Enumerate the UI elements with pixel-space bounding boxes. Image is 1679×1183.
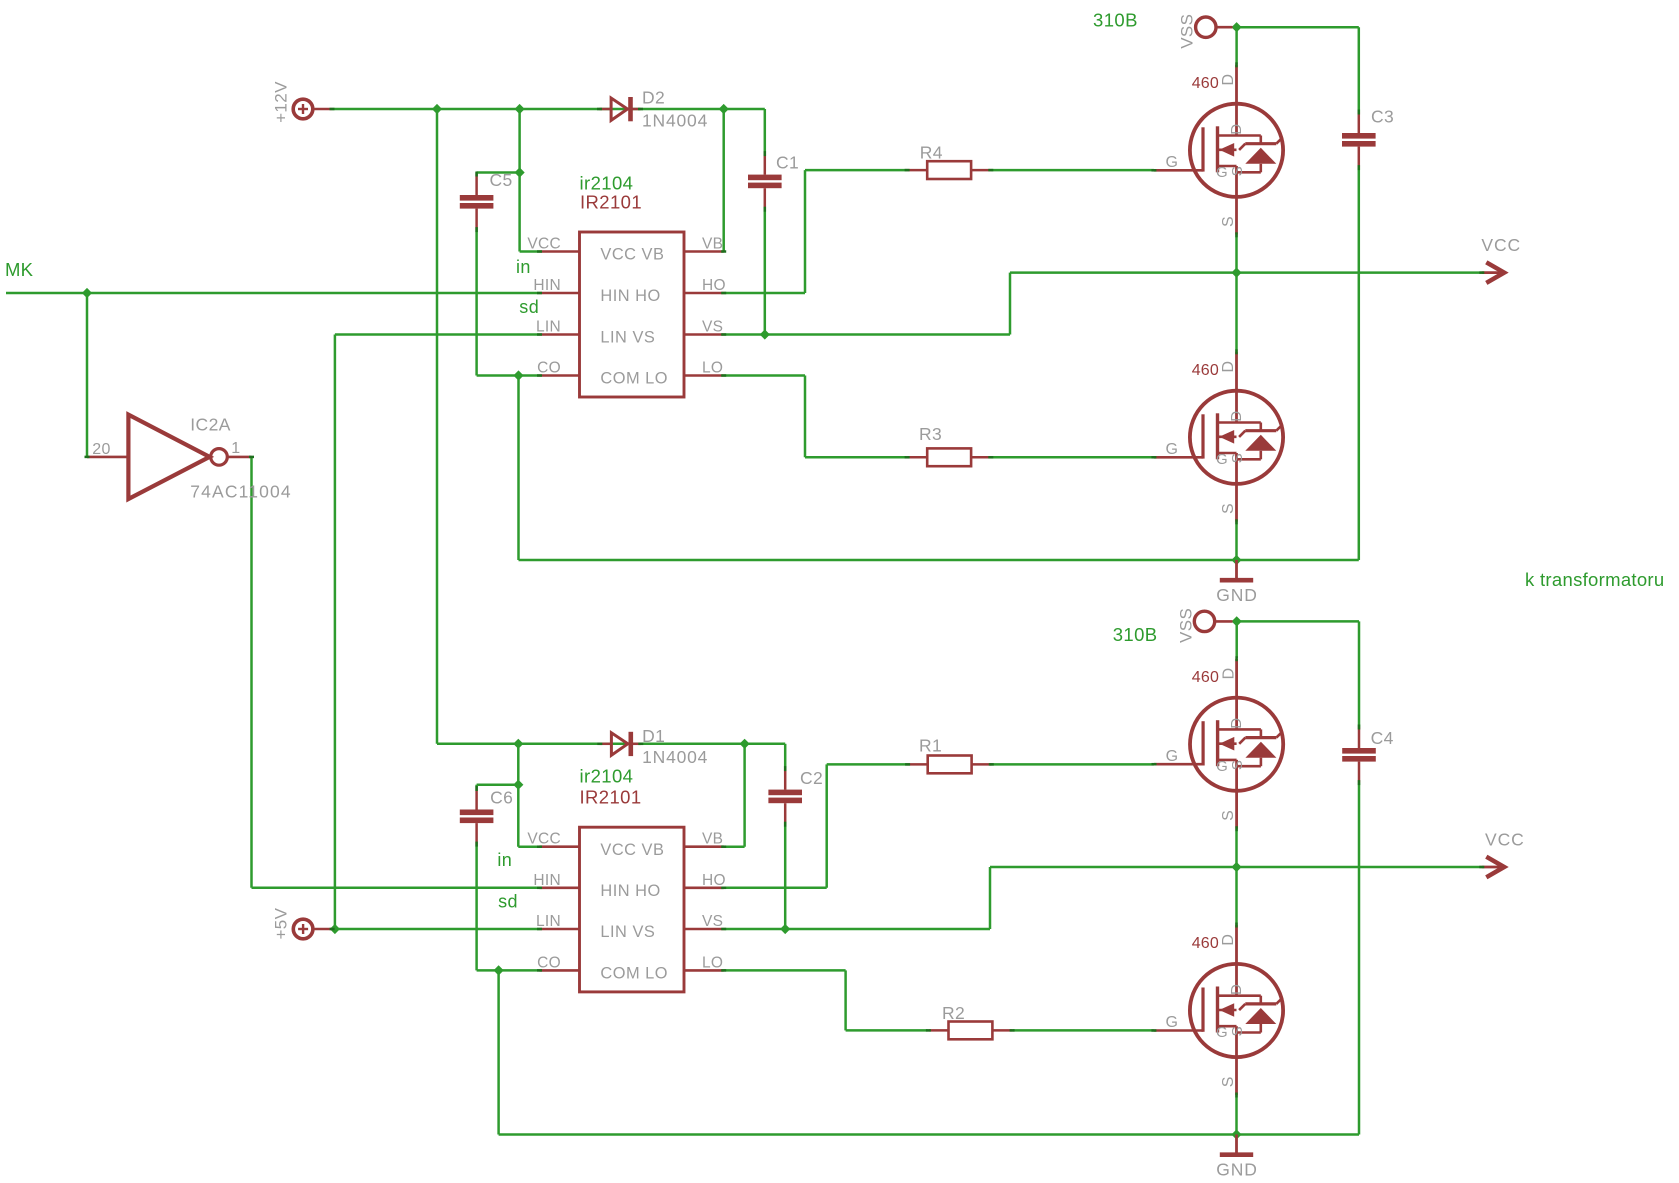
svg-text:VCC: VCC xyxy=(527,236,561,253)
svg-text:CO: CO xyxy=(537,360,561,377)
svg-text:sd: sd xyxy=(519,297,539,317)
svg-text:ir2104: ir2104 xyxy=(580,173,634,194)
svg-text:CO: CO xyxy=(537,954,561,971)
svg-text:460: 460 xyxy=(1192,935,1219,952)
svg-text:HO: HO xyxy=(702,872,726,889)
svg-text:COM LO: COM LO xyxy=(600,370,668,388)
svg-text:1N4004: 1N4004 xyxy=(642,747,708,767)
svg-text:IR2101: IR2101 xyxy=(580,192,642,213)
svg-text:VCC: VCC xyxy=(527,831,561,848)
svg-text:D: D xyxy=(1228,984,1245,995)
svg-text:310B: 310B xyxy=(1093,9,1138,30)
svg-text:310B: 310B xyxy=(1113,624,1158,645)
svg-text:S: S xyxy=(1220,1076,1237,1087)
svg-text:S: S xyxy=(1229,1026,1246,1036)
svg-text:HIN: HIN xyxy=(533,277,561,294)
svg-text:R1: R1 xyxy=(919,736,942,756)
svg-text:R3: R3 xyxy=(919,424,942,444)
svg-text:S: S xyxy=(1220,216,1237,227)
svg-text:C2: C2 xyxy=(800,768,823,788)
svg-text:D: D xyxy=(1220,667,1237,679)
svg-text:R4: R4 xyxy=(920,143,943,163)
svg-text:LIN VS: LIN VS xyxy=(600,329,655,347)
svg-text:C4: C4 xyxy=(1371,728,1394,748)
svg-text:VSS: VSS xyxy=(1178,14,1197,49)
svg-text:D: D xyxy=(1220,74,1237,86)
svg-text:G: G xyxy=(1166,154,1179,171)
svg-text:LO: LO xyxy=(702,360,723,377)
svg-text:S: S xyxy=(1229,166,1246,176)
svg-text:IC2A: IC2A xyxy=(190,415,231,435)
svg-text:k transformatoru: k transformatoru xyxy=(1525,569,1665,590)
svg-text:D: D xyxy=(1228,124,1245,135)
svg-text:G: G xyxy=(1216,164,1228,181)
svg-text:LO: LO xyxy=(702,954,723,971)
svg-text:C3: C3 xyxy=(1371,107,1394,127)
svg-text:D: D xyxy=(1228,411,1245,422)
svg-text:460: 460 xyxy=(1192,362,1219,379)
svg-text:C1: C1 xyxy=(776,152,799,172)
svg-text:D1: D1 xyxy=(642,726,665,746)
svg-text:1N4004: 1N4004 xyxy=(642,111,708,131)
svg-text:sd: sd xyxy=(498,892,518,912)
svg-text:MK: MK xyxy=(5,259,34,280)
svg-text:D: D xyxy=(1220,361,1237,373)
svg-text:VS: VS xyxy=(702,913,723,930)
svg-text:LIN: LIN xyxy=(536,319,561,336)
svg-text:G: G xyxy=(1166,748,1179,765)
svg-text:VCC VB: VCC VB xyxy=(600,841,664,859)
svg-text:S: S xyxy=(1220,503,1237,514)
svg-text:20: 20 xyxy=(92,441,111,458)
svg-text:COM LO: COM LO xyxy=(600,965,668,983)
svg-text:D: D xyxy=(1228,717,1245,728)
svg-text:ir2104: ir2104 xyxy=(580,766,634,787)
svg-text:HIN HO: HIN HO xyxy=(600,287,660,305)
svg-text:R2: R2 xyxy=(942,1003,965,1023)
svg-text:G: G xyxy=(1216,451,1228,468)
svg-text:HIN: HIN xyxy=(533,872,561,889)
svg-text:VS: VS xyxy=(702,319,723,336)
svg-text:VCC: VCC xyxy=(1485,830,1525,850)
svg-text:in: in xyxy=(516,257,531,277)
svg-text:GND: GND xyxy=(1216,1160,1258,1180)
svg-text:460: 460 xyxy=(1192,669,1219,686)
svg-text:VCC VB: VCC VB xyxy=(600,246,664,264)
svg-text:in: in xyxy=(497,850,512,870)
svg-text:C6: C6 xyxy=(490,787,513,807)
svg-text:S: S xyxy=(1220,810,1237,821)
svg-text:C5: C5 xyxy=(490,170,513,190)
svg-text:G: G xyxy=(1166,441,1179,458)
svg-text:D: D xyxy=(1220,934,1237,946)
svg-text:IR2101: IR2101 xyxy=(580,786,642,807)
svg-text:+5V: +5V xyxy=(272,907,291,939)
svg-text:HO: HO xyxy=(702,277,726,294)
svg-text:S: S xyxy=(1229,453,1246,463)
svg-text:D2: D2 xyxy=(642,87,665,107)
svg-text:GND: GND xyxy=(1216,585,1258,605)
svg-text:+12V: +12V xyxy=(272,81,291,123)
svg-text:S: S xyxy=(1229,760,1246,770)
svg-text:VB: VB xyxy=(702,236,723,253)
svg-text:LIN: LIN xyxy=(536,913,561,930)
svg-text:G: G xyxy=(1166,1014,1179,1031)
svg-text:VB: VB xyxy=(702,831,723,848)
svg-text:74AC11004: 74AC11004 xyxy=(190,481,291,501)
svg-text:HIN HO: HIN HO xyxy=(600,882,660,900)
svg-text:LIN VS: LIN VS xyxy=(600,923,655,941)
svg-text:VSS: VSS xyxy=(1176,608,1195,643)
svg-text:G: G xyxy=(1216,1024,1228,1041)
svg-text:VCC: VCC xyxy=(1481,235,1521,255)
svg-text:1: 1 xyxy=(231,440,240,457)
svg-text:460: 460 xyxy=(1192,75,1219,92)
svg-text:G: G xyxy=(1216,758,1228,775)
